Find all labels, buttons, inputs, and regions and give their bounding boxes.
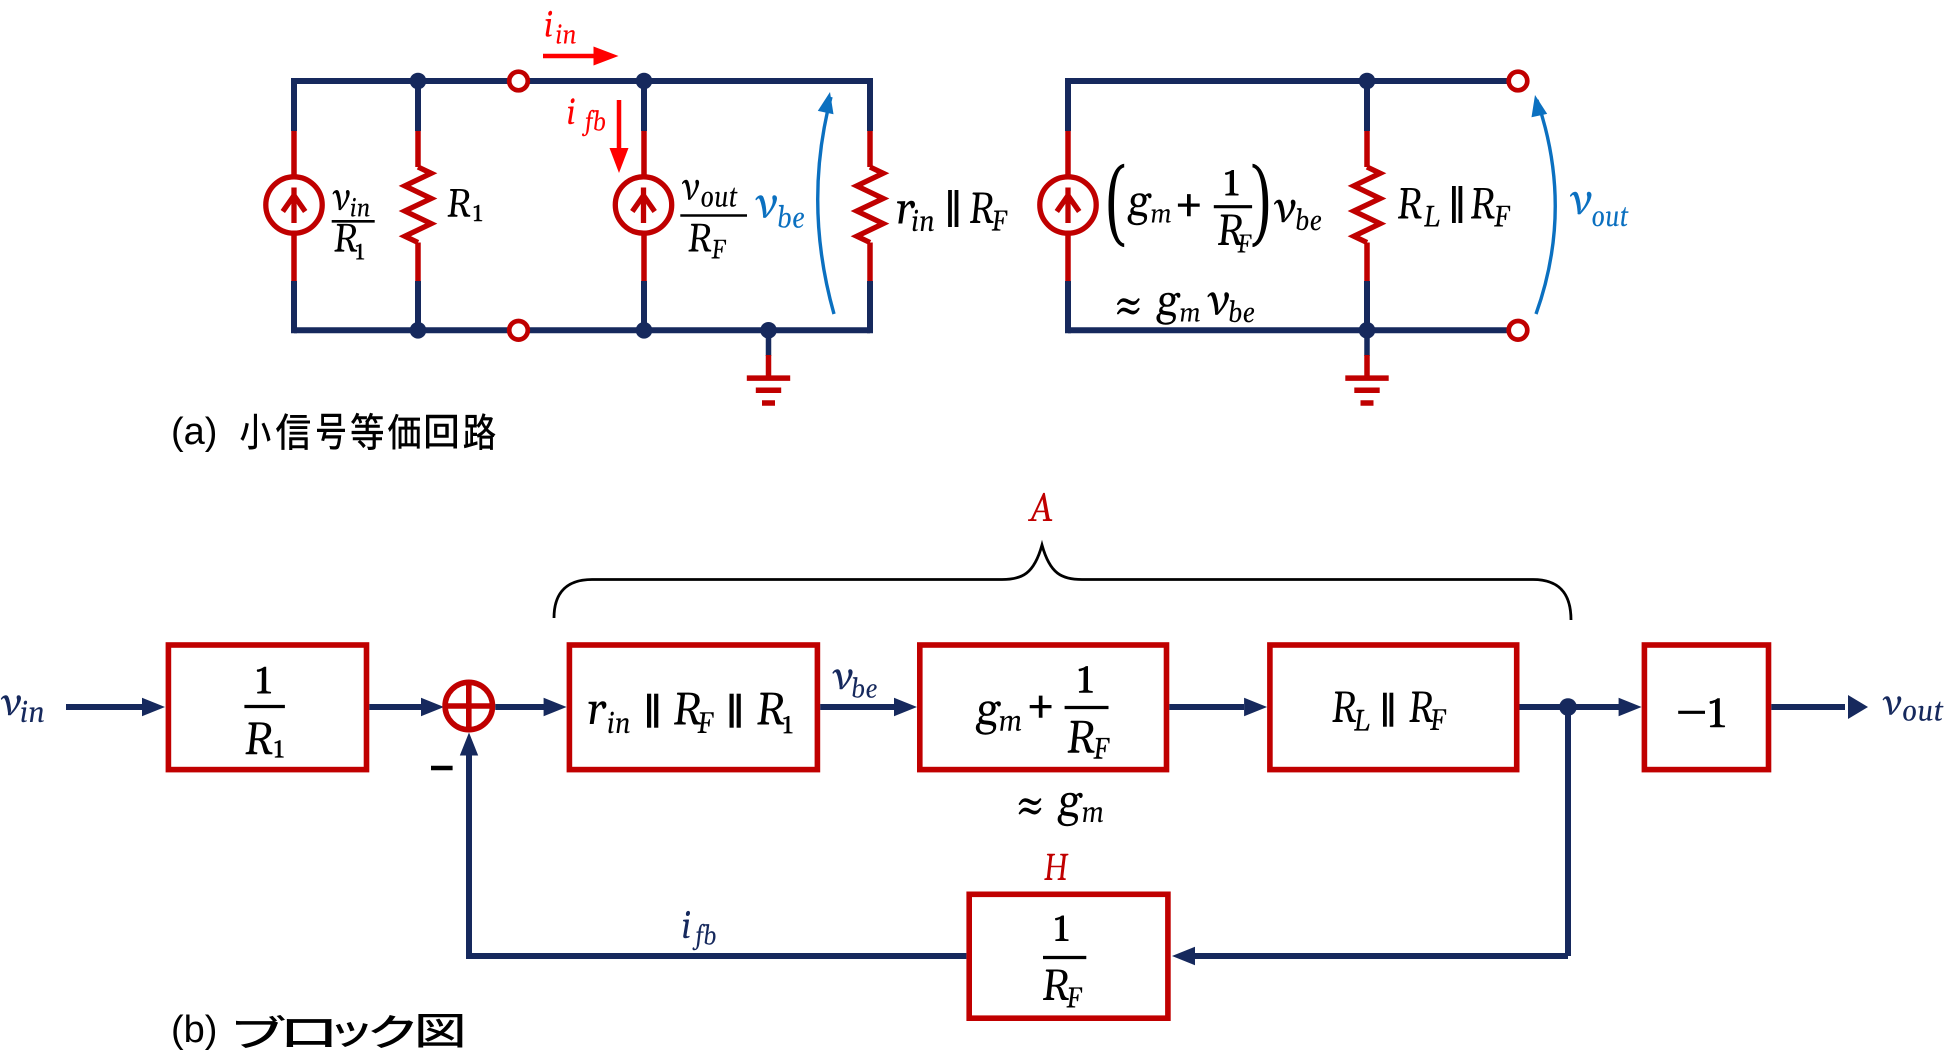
resistor rin||RF xyxy=(857,167,883,243)
resistor RL||RF xyxy=(1354,167,1380,243)
wire: RL||RF branch red leads xyxy=(1364,131,1370,281)
terminal: input top xyxy=(509,72,528,91)
wire+arrow: summing junction to block rin xyxy=(495,704,545,710)
block -1 text xyxy=(1678,698,1725,727)
wire+arrow: feedback into block 1/RF xyxy=(1194,953,1568,959)
label vout blue xyxy=(1570,192,1629,227)
wire: feedback node down xyxy=(1565,707,1571,956)
node: bottom junction R1 xyxy=(410,322,427,339)
label RL||RF circuit xyxy=(1398,188,1510,227)
wire: ground stub right circuit xyxy=(1364,330,1370,356)
wire: ground stub left circuit xyxy=(766,330,772,356)
wire: left source branch red segments xyxy=(291,131,297,281)
terminal: input bottom xyxy=(509,321,528,340)
wire: rin||RF branch red leads xyxy=(867,131,873,281)
ground symbol right circuit xyxy=(1345,355,1388,403)
label A forward gain xyxy=(1028,493,1052,521)
block 1/RF (H block) xyxy=(969,894,1168,1018)
block rin||RF||R1 xyxy=(569,645,817,770)
wire+arrow: block -1 to vout xyxy=(1771,704,1845,710)
block -1 xyxy=(1644,645,1768,770)
arc vout voltage annotation xyxy=(1536,100,1555,314)
wire: middle source branch navy segments xyxy=(641,78,647,333)
arrow iin current direction xyxy=(543,54,597,59)
resistor R1 xyxy=(405,167,431,243)
label vin input xyxy=(1,695,44,722)
wire: left circuit top rail xyxy=(294,78,870,84)
wire+arrow: node to block -1 xyxy=(1568,704,1620,710)
wire+arrow: block rin to block gm xyxy=(820,704,894,710)
wire: left circuit bottom rail xyxy=(294,327,870,333)
label vbe signal xyxy=(833,669,877,698)
current source I1 vin/R1 xyxy=(266,177,322,233)
label I1 value vin/R1 xyxy=(333,190,370,260)
summing junction xyxy=(445,682,492,729)
label R1 xyxy=(448,189,483,221)
wire+arrow: feedback to summing junction xyxy=(469,753,966,956)
block 1/R1 xyxy=(168,645,366,770)
wire: right circuit bottom rail xyxy=(1068,327,1518,333)
block rin||RF||R1 text xyxy=(588,701,629,733)
label ifb annotation xyxy=(568,98,605,136)
current source I2 vout/RF xyxy=(615,177,671,233)
wire: rin||RF branch navy segments xyxy=(867,78,873,333)
ground symbol left circuit xyxy=(747,355,790,403)
wire: middle source branch red segments xyxy=(641,131,647,281)
caption (b) kana xyxy=(236,1014,462,1048)
arc vbe voltage annotation xyxy=(818,97,834,314)
node: bottom junction I2 xyxy=(636,322,653,339)
label ifb feedback signal xyxy=(683,911,716,950)
block 1/R1 text xyxy=(257,667,271,694)
label approx gm under block xyxy=(1019,798,1042,814)
terminal: output top xyxy=(1509,72,1528,91)
block 1/RF text xyxy=(1055,916,1069,942)
label rin||RF xyxy=(897,193,1007,232)
svg-text:(a): (a) xyxy=(171,411,217,453)
label I3 value (gm+1/RF)vbe xyxy=(1109,164,1269,247)
wire+arrow: vin to block 1/R1 xyxy=(66,704,144,710)
wire+arrow: block gm to block RL xyxy=(1169,704,1244,710)
terminal: output bottom xyxy=(1509,321,1528,340)
node: bottom ground junction xyxy=(760,322,777,339)
wire: R1 branch red leads xyxy=(415,131,421,281)
wire: right source branch red segments xyxy=(1065,131,1071,281)
wire: block RL to node xyxy=(1520,704,1569,710)
block gm+1/RF text xyxy=(976,701,1021,735)
label iin xyxy=(546,11,576,44)
wire: R1 branch navy segments xyxy=(415,78,421,333)
caption (a) kanji xyxy=(240,413,495,450)
wire+arrow: block 1/R1 to summing junction xyxy=(369,704,422,710)
label vbe blue xyxy=(756,195,805,228)
label vout output xyxy=(1883,696,1944,721)
node: branch point after RL||RF xyxy=(1559,698,1577,716)
wire: left source branch navy segments xyxy=(291,78,297,333)
node: right bottom junction xyxy=(1359,322,1376,339)
wire: right circuit top rail xyxy=(1068,78,1518,84)
label minus at summing junction xyxy=(431,766,453,771)
block gm+1/RF xyxy=(920,645,1167,770)
label approx gm vbe xyxy=(1117,298,1140,314)
node: top junction I2 xyxy=(636,73,653,90)
label H feedback gain xyxy=(1044,854,1068,880)
label I2 value vout/RF xyxy=(682,180,738,259)
block RL||RF text xyxy=(1332,692,1369,731)
wire: right source branch navy segments xyxy=(1065,78,1071,333)
node: right top junction xyxy=(1359,73,1376,90)
arrow ifb current direction xyxy=(617,100,622,150)
block RL||RF xyxy=(1270,645,1517,770)
node: top junction R1 xyxy=(410,73,427,90)
brace A over forward path xyxy=(554,545,1571,620)
current source I3 (gm+1/RF)vbe xyxy=(1040,177,1096,233)
wire: RL||RF branch navy segments xyxy=(1364,78,1370,333)
svg-text:(b): (b) xyxy=(171,1009,217,1051)
